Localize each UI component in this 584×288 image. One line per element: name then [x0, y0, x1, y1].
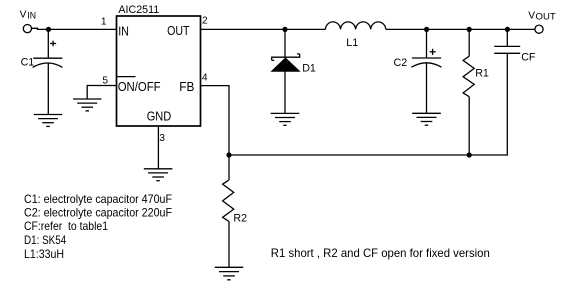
svg-text:C1: C1: [21, 56, 35, 68]
node junction FB/R2: [226, 152, 231, 157]
svg-text:D1: SK54: D1: SK54: [24, 233, 66, 247]
wire R1 to bottom rail: [468, 97, 470, 155]
svg-text:V: V: [528, 10, 535, 21]
svg-text:D1: D1: [302, 62, 316, 74]
ON overline: [117, 76, 135, 78]
ground (C1): [34, 115, 63, 127]
wire input rail to IC pin 1: [49, 28, 117, 30]
wire IC pin 2 to inductor: [201, 28, 326, 30]
ground (D1): [271, 113, 300, 125]
ground (R2): [215, 267, 244, 280]
svg-text:R1 short , R2 and CF open for: R1 short , R2 and CF open for fixed vers…: [271, 246, 490, 260]
node VOUT terminal: [535, 25, 543, 33]
svg-text:OUT: OUT: [536, 12, 557, 22]
op-amp U1 AIC2511 box: [117, 16, 201, 126]
node junction R1 top: [467, 27, 472, 32]
svg-text:ON/OFF: ON/OFF: [118, 79, 161, 94]
ground (pin 5 ON/OFF): [73, 99, 102, 111]
svg-text:V: V: [20, 9, 27, 20]
wire junction down to R1: [468, 29, 470, 56]
node VIN label: [20, 9, 36, 20]
wire FB node down to R2: [228, 155, 230, 180]
svg-text:IN: IN: [27, 11, 36, 21]
node junction D1: [282, 27, 287, 32]
wire junction down to D1 cathode: [284, 29, 286, 57]
wire junction down to C2: [426, 29, 428, 58]
svg-text:1: 1: [101, 17, 107, 28]
capacitor CF: [494, 46, 520, 53]
svg-text:CF:refer to table1: CF:refer to table1: [24, 219, 108, 233]
diode D1 (Schottky): [271, 54, 300, 72]
wire R2 to ground: [228, 221, 230, 267]
wire junction down to C1: [47, 29, 49, 58]
resistor R2: [223, 180, 234, 221]
wire CF bottom down to rail: [506, 53, 508, 155]
wire IC pin 4 FB to node: [201, 86, 230, 155]
node junction VIN/C1: [46, 27, 51, 32]
node VOUT label: [528, 10, 556, 21]
wire C2 to ground: [426, 63, 428, 113]
capacitor C1 (polarized): [33, 41, 63, 68]
node VIN terminal: [23, 25, 31, 33]
svg-text:4: 4: [202, 72, 208, 83]
wire inductor to VOUT: [386, 28, 535, 30]
wire pin 3 to ground: [157, 126, 159, 169]
capacitor C2 (polarized): [411, 49, 441, 67]
wire junction down to CF: [506, 29, 508, 46]
svg-text:L1:33uH: L1:33uH: [24, 247, 64, 261]
node junction R1 bottom: [467, 152, 472, 157]
svg-text:C2: C2: [394, 57, 408, 69]
svg-text:AIC2511: AIC2511: [118, 4, 159, 16]
ground (C2): [412, 113, 441, 125]
svg-text:OUT: OUT: [167, 23, 189, 38]
wire C1 to ground: [47, 63, 49, 114]
wire VIN to junction: [32, 28, 49, 29]
svg-text:CF: CF: [521, 52, 536, 64]
ground (pin 3 GND): [144, 169, 173, 181]
node junction CF top: [505, 27, 510, 32]
wire pin 5 to ground: [87, 86, 116, 100]
wire bottom rail: [229, 154, 507, 156]
node junction C2: [424, 27, 429, 32]
svg-text:C1: electrolyte capacitor 470u: C1: electrolyte capacitor 470uF: [24, 192, 172, 206]
svg-text:FB: FB: [179, 79, 194, 94]
svg-text:2: 2: [202, 15, 208, 26]
svg-text:R2: R2: [233, 212, 247, 224]
svg-text:3: 3: [159, 133, 165, 144]
svg-text:R1: R1: [475, 68, 489, 80]
resistor R1: [463, 56, 474, 96]
wire D1 anode to ground: [284, 72, 286, 114]
svg-text:IN: IN: [118, 24, 129, 39]
inductor L1: [325, 22, 385, 29]
svg-text:GND: GND: [147, 109, 172, 124]
svg-text:L1: L1: [346, 37, 358, 49]
svg-text:C2: electrolyte capacitor 220u: C2: electrolyte capacitor 220uF: [24, 206, 172, 220]
